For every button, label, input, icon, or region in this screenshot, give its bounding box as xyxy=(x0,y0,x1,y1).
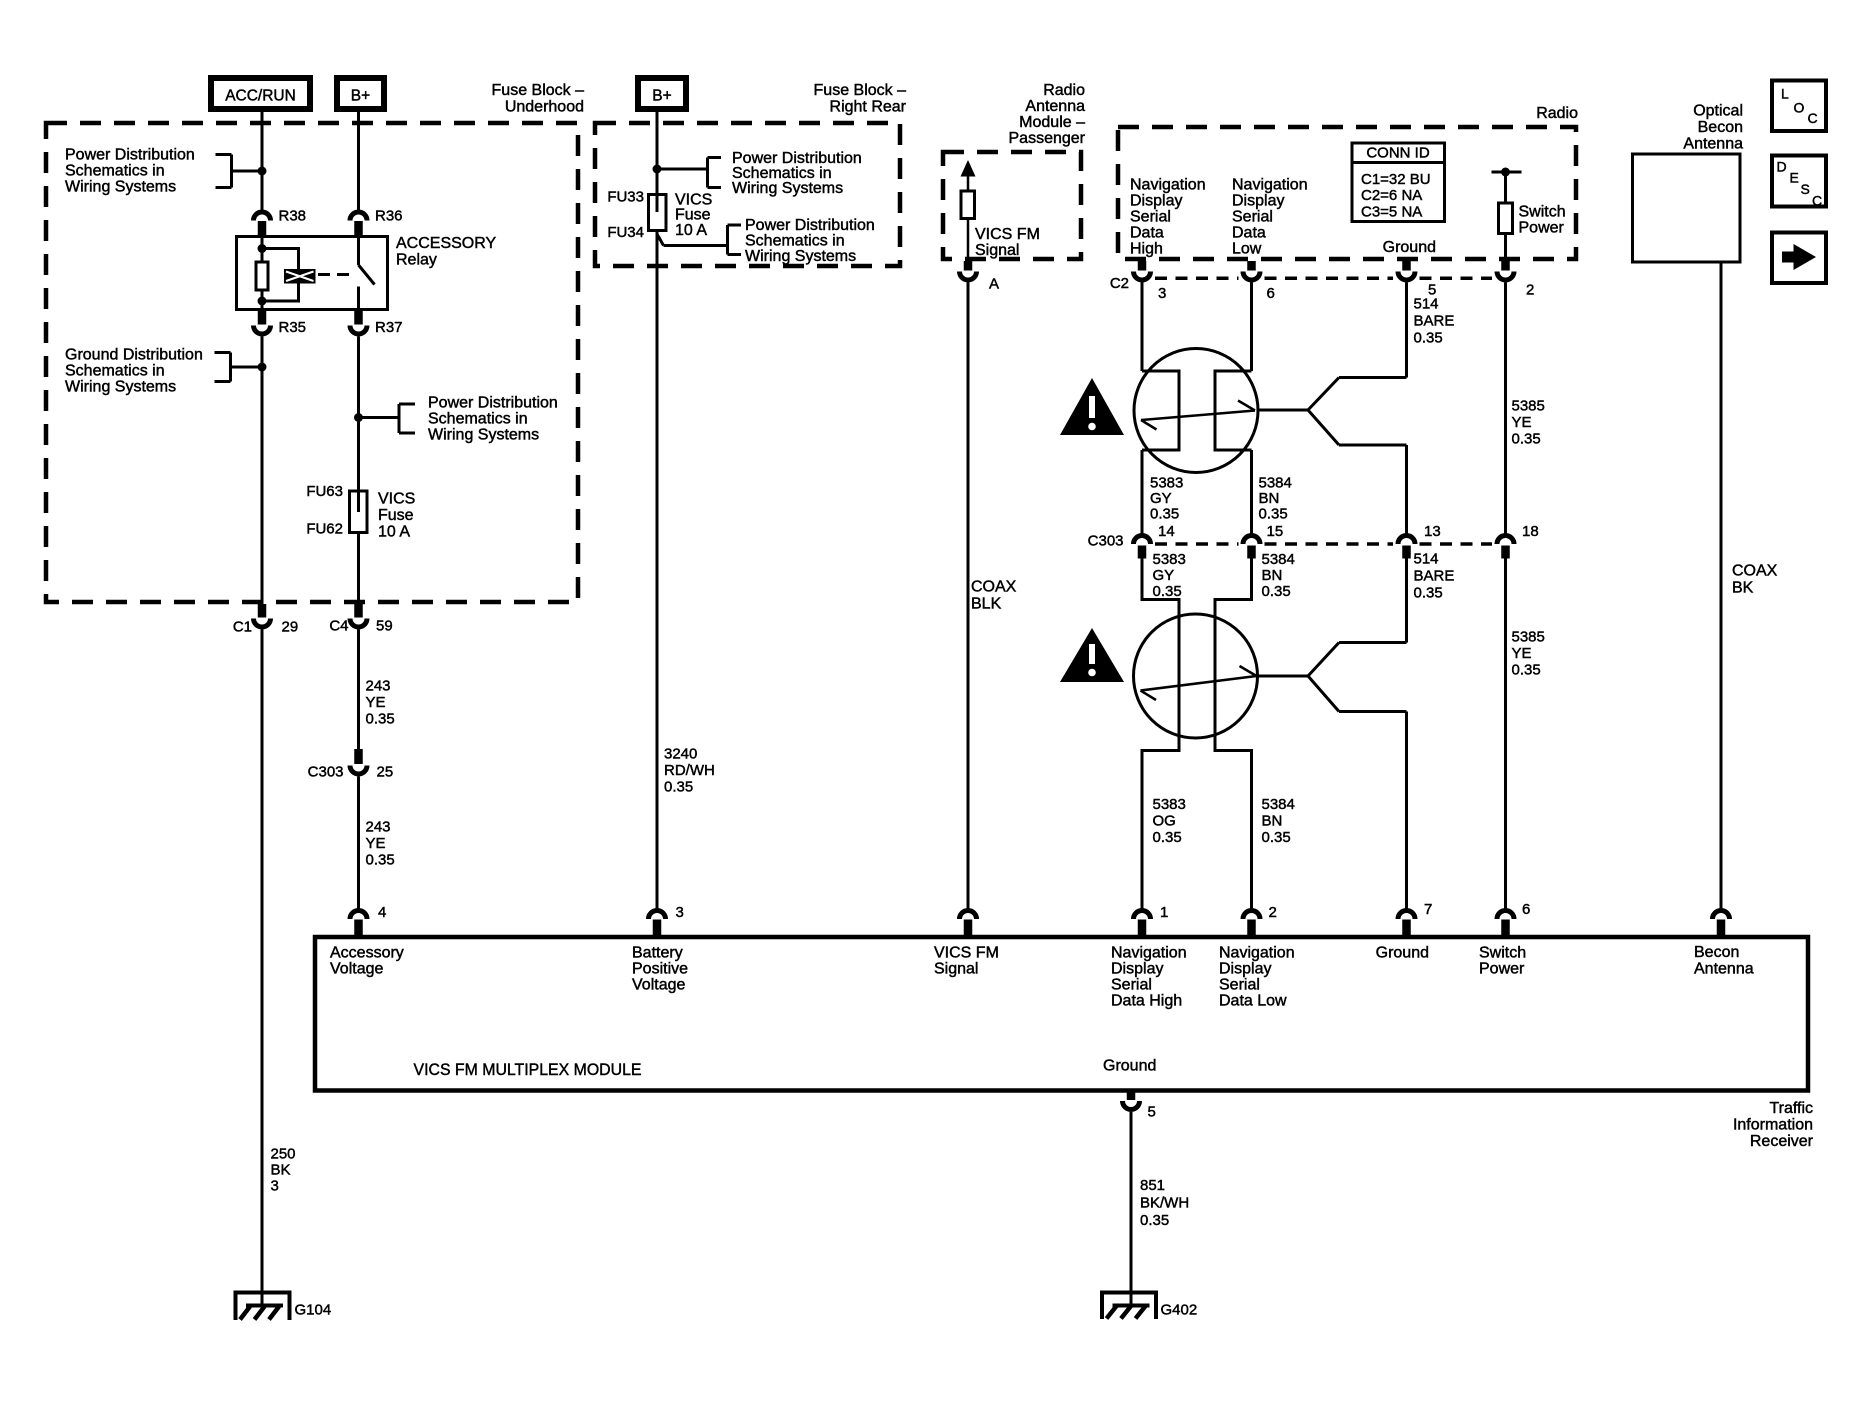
svg-text:Display: Display xyxy=(1111,961,1163,978)
svg-text:BLK: BLK xyxy=(971,596,1002,613)
svg-text:O: O xyxy=(1794,100,1805,116)
svg-text:C2: C2 xyxy=(1110,275,1129,292)
svg-text:Information: Information xyxy=(1733,1117,1813,1134)
svg-text:Voltage: Voltage xyxy=(330,961,383,978)
fuse FU33/FU34 VICS Fuse 10A xyxy=(607,189,712,242)
label Optical Becon Antenna xyxy=(1683,103,1743,153)
svg-text:Signal: Signal xyxy=(934,961,978,978)
svg-text:Becon: Becon xyxy=(1694,944,1739,961)
off-page reference Power Distribution right of B+ wire xyxy=(354,395,558,444)
off-page reference Power Distribution right rear lower xyxy=(657,217,875,265)
connector C2 pin 2 xyxy=(1497,261,1534,299)
svg-text:S: S xyxy=(1801,181,1810,197)
wire 851 BK/WH xyxy=(1131,1112,1189,1306)
svg-text:Receiver: Receiver xyxy=(1750,1133,1814,1150)
module pin VICS FM xyxy=(960,911,977,936)
svg-text:OG: OG xyxy=(1153,813,1176,830)
label Navigation Display Serial Data Low xyxy=(1232,177,1308,258)
wire 514 BARE upper xyxy=(1407,283,1455,378)
svg-text:BN: BN xyxy=(1262,567,1283,584)
wire nav high C2-3 to shield 1 xyxy=(1141,283,1144,372)
svg-text:Antenna: Antenna xyxy=(1025,98,1085,115)
svg-text:6: 6 xyxy=(1267,285,1275,302)
button LOC xyxy=(1772,81,1826,132)
svg-text:Fuse: Fuse xyxy=(675,207,711,224)
off-page reference Power Distribution right rear upper xyxy=(653,150,862,197)
svg-text:C303: C303 xyxy=(1088,533,1124,550)
wire 3240 RD/WH xyxy=(657,231,715,909)
svg-text:BK: BK xyxy=(1732,580,1754,597)
terminal B+ right rear xyxy=(638,78,686,109)
svg-text:R38: R38 xyxy=(279,208,307,225)
wire 5385 YE upper xyxy=(1506,283,1545,534)
svg-text:Schematics in: Schematics in xyxy=(428,411,528,428)
connector R36 xyxy=(350,208,403,236)
svg-text:E: E xyxy=(1790,170,1799,186)
wire 5383 GY upper label xyxy=(1142,450,1183,534)
svg-text:FU33: FU33 xyxy=(607,189,644,206)
wire B+ to relay xyxy=(357,112,360,210)
svg-text:Navigation: Navigation xyxy=(1130,177,1206,194)
svg-text:2: 2 xyxy=(1269,904,1277,921)
wire 243 YE lower xyxy=(359,777,395,909)
svg-text:243: 243 xyxy=(366,678,391,695)
module pin 7 xyxy=(1398,901,1432,935)
svg-text:Display: Display xyxy=(1232,193,1284,210)
svg-text:Traffic: Traffic xyxy=(1769,1100,1813,1117)
svg-text:3: 3 xyxy=(1158,285,1166,302)
label Battery Positive Voltage xyxy=(632,945,688,994)
relay coil resistor xyxy=(256,235,268,311)
module pin 4 xyxy=(350,904,386,935)
label VICS FM Signal module xyxy=(934,945,999,978)
svg-text:0.35: 0.35 xyxy=(1512,662,1541,679)
svg-text:ACCESSORY: ACCESSORY xyxy=(396,235,497,252)
wire 5384 BN upper label xyxy=(1252,450,1292,534)
svg-text:Right Rear: Right Rear xyxy=(830,99,907,116)
svg-text:BARE: BARE xyxy=(1414,568,1455,585)
warning triangle 1 xyxy=(1060,378,1124,435)
svg-text:10 A: 10 A xyxy=(378,524,410,541)
svg-text:Ground: Ground xyxy=(1376,945,1429,962)
svg-text:3: 3 xyxy=(676,904,684,921)
svg-text:Power: Power xyxy=(1479,961,1525,978)
svg-text:Radio: Radio xyxy=(1043,82,1085,99)
wire 5383 OG label xyxy=(1153,796,1186,846)
svg-text:YE: YE xyxy=(366,835,386,852)
ground G104 xyxy=(236,1293,332,1321)
connector R37 xyxy=(350,311,403,336)
svg-text:C1: C1 xyxy=(233,619,252,636)
wire 5385 YE lower xyxy=(1506,559,1545,909)
svg-text:FU63: FU63 xyxy=(306,483,343,500)
connector C2 pin 6 xyxy=(1243,261,1275,302)
accessory relay box xyxy=(237,235,497,310)
svg-text:Display: Display xyxy=(1130,193,1182,210)
svg-text:C1=32 BU: C1=32 BU xyxy=(1361,171,1431,188)
svg-text:Serial: Serial xyxy=(1219,977,1260,994)
svg-text:5383: 5383 xyxy=(1153,796,1186,813)
svg-text:VICS FM: VICS FM xyxy=(975,226,1040,243)
svg-text:B+: B+ xyxy=(652,88,671,105)
svg-text:Power: Power xyxy=(1519,220,1565,237)
svg-text:D: D xyxy=(1777,159,1787,175)
relay switch xyxy=(359,235,375,311)
off-page reference Ground Distribution xyxy=(65,347,267,396)
svg-text:0.35: 0.35 xyxy=(1153,583,1182,600)
svg-text:243: 243 xyxy=(366,819,391,836)
svg-text:C4: C4 xyxy=(329,618,348,635)
module pin becon antenna xyxy=(1713,911,1730,936)
wire 5384 BN bottom label xyxy=(1262,796,1295,846)
connector C303 25 xyxy=(308,749,394,781)
label Navigation Display Serial Data High module xyxy=(1111,945,1187,1010)
svg-text:VICS FM MULTIPLEX MODULE: VICS FM MULTIPLEX MODULE xyxy=(414,1060,642,1079)
svg-text:Low: Low xyxy=(1232,241,1262,258)
antenna symbol xyxy=(961,160,976,261)
svg-text:FU62: FU62 xyxy=(306,521,343,538)
svg-text:Ground: Ground xyxy=(1383,239,1436,256)
svg-text:Antenna: Antenna xyxy=(1683,136,1743,153)
svg-text:Battery: Battery xyxy=(632,945,683,962)
label Fuse Block - Right Rear xyxy=(814,82,907,116)
svg-text:0.35: 0.35 xyxy=(1262,583,1291,600)
svg-text:5385: 5385 xyxy=(1512,629,1545,646)
svg-text:Radio: Radio xyxy=(1536,105,1578,122)
svg-text:RD/WH: RD/WH xyxy=(664,762,715,779)
label Traffic Information Receiver xyxy=(1733,1100,1814,1150)
svg-text:5384: 5384 xyxy=(1262,796,1295,813)
svg-text:GY: GY xyxy=(1150,490,1172,507)
svg-text:Wiring Systems: Wiring Systems xyxy=(428,427,539,444)
svg-text:Wiring Systems: Wiring Systems xyxy=(65,179,176,196)
wire relay R35 down xyxy=(261,337,264,605)
CONN ID table xyxy=(1351,143,1447,222)
svg-text:Power Distribution: Power Distribution xyxy=(745,217,875,234)
module pin 1 xyxy=(1134,904,1169,935)
svg-text:3240: 3240 xyxy=(664,746,697,763)
svg-text:C3=5 NA: C3=5 NA xyxy=(1361,203,1422,220)
connector R38 xyxy=(254,208,307,236)
svg-text:BN: BN xyxy=(1259,490,1280,507)
svg-text:Schematics in: Schematics in xyxy=(65,363,165,380)
connector C303 pin 13 xyxy=(1398,523,1441,559)
shield 2 drain fork xyxy=(1258,643,1407,909)
svg-text:4: 4 xyxy=(378,904,386,921)
svg-text:R37: R37 xyxy=(375,319,403,336)
svg-text:0.35: 0.35 xyxy=(1262,829,1291,846)
svg-text:250: 250 xyxy=(271,1146,296,1163)
button next page arrow xyxy=(1772,233,1826,284)
svg-text:514: 514 xyxy=(1414,296,1439,313)
svg-text:0.35: 0.35 xyxy=(366,852,395,869)
VICS FM multiplex module box xyxy=(315,937,1808,1091)
svg-text:G104: G104 xyxy=(295,1302,332,1319)
svg-text:Accessory: Accessory xyxy=(330,945,404,962)
svg-text:6: 6 xyxy=(1522,901,1530,918)
svg-text:Module –: Module – xyxy=(1019,114,1085,131)
connector C303 pin 18 xyxy=(1497,523,1539,559)
svg-text:0.35: 0.35 xyxy=(1150,506,1179,523)
terminal B+ underhood xyxy=(337,78,384,109)
svg-text:CONN ID: CONN ID xyxy=(1366,145,1430,162)
relay coil winding xyxy=(258,244,316,306)
wire B+ right rear to fuse xyxy=(656,112,659,195)
module pin 6 xyxy=(1497,901,1530,935)
label Becon Antenna module xyxy=(1694,944,1754,978)
svg-text:B+: B+ xyxy=(351,88,370,105)
wire 243 YE upper xyxy=(359,630,395,750)
svg-text:0.35: 0.35 xyxy=(1140,1212,1169,1229)
svg-text:Becon: Becon xyxy=(1698,119,1743,136)
wire 514 BARE lower label xyxy=(1407,551,1455,643)
svg-text:Ground Distribution: Ground Distribution xyxy=(65,347,203,364)
wire COAX BK xyxy=(1721,264,1778,909)
wire 250 BK to G104 xyxy=(262,630,296,1307)
terminal ACC/RUN xyxy=(211,78,310,109)
connector C4 59 xyxy=(329,604,392,635)
svg-text:Navigation: Navigation xyxy=(1232,177,1308,194)
svg-text:Data: Data xyxy=(1130,225,1164,242)
connector row C2 dashed line xyxy=(1110,275,1492,292)
svg-text:Serial: Serial xyxy=(1232,209,1273,226)
svg-text:Positive: Positive xyxy=(632,961,688,978)
svg-text:YE: YE xyxy=(1512,645,1532,662)
shield 1 drain fork xyxy=(1258,378,1407,534)
svg-text:Ground: Ground xyxy=(1103,1058,1156,1075)
label Navigation Display Serial Data High xyxy=(1130,177,1206,258)
svg-text:Power Distribution: Power Distribution xyxy=(65,147,195,164)
svg-text:Switch: Switch xyxy=(1519,204,1566,221)
svg-text:C: C xyxy=(1812,193,1822,209)
wire 5384 BN lower label xyxy=(1215,551,1295,909)
svg-text:C303: C303 xyxy=(308,764,344,781)
svg-text:514: 514 xyxy=(1414,551,1439,568)
svg-text:18: 18 xyxy=(1522,523,1539,540)
radio antenna module dashed box xyxy=(943,152,1081,259)
connector C2 pin 5 xyxy=(1398,261,1436,299)
svg-text:10 A: 10 A xyxy=(675,222,707,239)
svg-text:Relay: Relay xyxy=(396,252,437,269)
svg-text:Wiring Systems: Wiring Systems xyxy=(745,248,856,265)
svg-text:ACC/RUN: ACC/RUN xyxy=(225,88,296,105)
svg-text:COAX: COAX xyxy=(1732,563,1778,580)
connector C303 pin 14 xyxy=(1134,523,1175,559)
svg-text:Switch: Switch xyxy=(1479,945,1526,962)
svg-text:Schematics in: Schematics in xyxy=(65,163,165,180)
fuse FU62/FU63 VICS Fuse 10A xyxy=(306,483,415,541)
svg-text:R36: R36 xyxy=(375,208,403,225)
module pin 3 xyxy=(649,904,684,935)
svg-text:Fuse: Fuse xyxy=(378,507,414,524)
connector C2 pin 3 xyxy=(1134,261,1167,302)
wire COAX BLK xyxy=(968,283,1017,909)
svg-text:5384: 5384 xyxy=(1259,475,1292,492)
svg-text:Fuse Block –: Fuse Block – xyxy=(814,82,907,99)
svg-text:VICS FM: VICS FM xyxy=(934,945,999,962)
svg-text:851: 851 xyxy=(1140,1177,1165,1194)
svg-text:BK: BK xyxy=(271,1162,291,1179)
svg-text:R35: R35 xyxy=(279,319,307,336)
connector R35 xyxy=(254,311,307,336)
svg-text:YE: YE xyxy=(1512,414,1532,431)
svg-text:G402: G402 xyxy=(1161,1302,1198,1319)
svg-text:5384: 5384 xyxy=(1262,551,1295,568)
svg-text:5383: 5383 xyxy=(1153,551,1186,568)
svg-text:3: 3 xyxy=(271,1178,279,1195)
svg-text:Power Distribution: Power Distribution xyxy=(428,395,558,412)
label Accessory Voltage xyxy=(330,945,404,978)
svg-text:0.35: 0.35 xyxy=(1414,330,1443,347)
svg-text:7: 7 xyxy=(1424,901,1432,918)
optical becon antenna box xyxy=(1633,154,1741,262)
svg-text:15: 15 xyxy=(1267,523,1284,540)
svg-text:5: 5 xyxy=(1148,1104,1156,1121)
module pin 2 xyxy=(1243,904,1277,935)
svg-text:VICS: VICS xyxy=(378,491,415,508)
wire nav low C2-6 to shield 1 xyxy=(1250,283,1253,372)
svg-text:Schematics in: Schematics in xyxy=(745,233,845,250)
svg-text:High: High xyxy=(1130,241,1163,258)
label Switch Power module xyxy=(1479,945,1526,978)
svg-text:5383: 5383 xyxy=(1150,475,1183,492)
wire ACC/RUN to relay xyxy=(261,112,264,210)
svg-text:GY: GY xyxy=(1153,567,1175,584)
twisted pair shield 2 xyxy=(1134,614,1258,738)
connector row C303 dashed line xyxy=(1088,533,1492,550)
svg-text:A: A xyxy=(989,276,999,293)
fuse block right rear dashed box xyxy=(595,123,900,266)
svg-text:59: 59 xyxy=(376,618,393,635)
svg-text:Fuse Block –: Fuse Block – xyxy=(492,82,585,99)
svg-text:0.35: 0.35 xyxy=(366,711,395,728)
svg-text:COAX: COAX xyxy=(971,579,1017,596)
svg-text:Wiring Systems: Wiring Systems xyxy=(65,379,176,396)
svg-text:Voltage: Voltage xyxy=(632,977,685,994)
fuse block underhood dashed box xyxy=(46,123,578,602)
svg-text:Signal: Signal xyxy=(975,242,1019,259)
svg-text:0.35: 0.35 xyxy=(1259,506,1288,523)
svg-text:Wiring Systems: Wiring Systems xyxy=(732,180,843,197)
warning triangle 2 xyxy=(1060,628,1124,682)
button DESC xyxy=(1772,156,1826,209)
switch power feed resistor xyxy=(1492,168,1566,262)
svg-text:Display: Display xyxy=(1219,961,1271,978)
svg-text:C2=6 NA: C2=6 NA xyxy=(1361,187,1422,204)
svg-text:0.35: 0.35 xyxy=(664,779,693,796)
label Radio Antenna Module - Passenger xyxy=(1009,82,1086,147)
wire 5383 GY lower label xyxy=(1142,551,1186,909)
label Navigation Display Serial Data Low module xyxy=(1219,945,1295,1010)
svg-text:0.35: 0.35 xyxy=(1153,829,1182,846)
svg-text:13: 13 xyxy=(1424,523,1441,540)
wire fuse to C4 xyxy=(357,533,360,605)
svg-text:L: L xyxy=(1781,86,1789,102)
svg-text:Underhood: Underhood xyxy=(505,99,584,116)
wire relay R37 down xyxy=(357,337,360,492)
svg-text:1: 1 xyxy=(1160,904,1168,921)
off-page reference Power Distribution top-left xyxy=(65,147,267,196)
svg-text:Data: Data xyxy=(1232,225,1266,242)
svg-text:YE: YE xyxy=(366,694,386,711)
svg-text:0.35: 0.35 xyxy=(1414,585,1443,602)
module ground pin 5 xyxy=(1123,1093,1156,1121)
connector A xyxy=(960,261,1000,293)
label Fuse Block - Underhood xyxy=(492,82,585,116)
svg-text:2: 2 xyxy=(1526,282,1534,299)
svg-text:Data Low: Data Low xyxy=(1219,993,1287,1010)
ground G402 xyxy=(1102,1293,1197,1320)
svg-text:Passenger: Passenger xyxy=(1009,130,1086,147)
svg-text:BK/WH: BK/WH xyxy=(1140,1195,1189,1212)
twisted pair shield 1 xyxy=(1134,349,1258,473)
relay actuation dashed link xyxy=(318,273,356,276)
connector C303 pin 15 xyxy=(1243,523,1283,559)
svg-text:FU34: FU34 xyxy=(607,224,644,241)
svg-text:14: 14 xyxy=(1158,523,1175,540)
svg-text:BARE: BARE xyxy=(1414,313,1455,330)
svg-text:Antenna: Antenna xyxy=(1694,961,1754,978)
svg-text:0.35: 0.35 xyxy=(1512,431,1541,448)
label VICS FM Signal xyxy=(975,226,1040,259)
svg-text:C: C xyxy=(1808,110,1818,126)
svg-text:Navigation: Navigation xyxy=(1111,945,1187,962)
svg-text:Navigation: Navigation xyxy=(1219,945,1295,962)
svg-text:Optical: Optical xyxy=(1693,103,1743,120)
svg-text:29: 29 xyxy=(282,619,299,636)
svg-text:25: 25 xyxy=(377,764,394,781)
svg-text:Data High: Data High xyxy=(1111,993,1182,1010)
svg-text:Serial: Serial xyxy=(1111,977,1152,994)
svg-text:Serial: Serial xyxy=(1130,209,1171,226)
connector C1 29 xyxy=(233,604,298,636)
radio dashed box xyxy=(1118,127,1576,259)
svg-text:5385: 5385 xyxy=(1512,398,1545,415)
svg-text:BN: BN xyxy=(1262,813,1283,830)
